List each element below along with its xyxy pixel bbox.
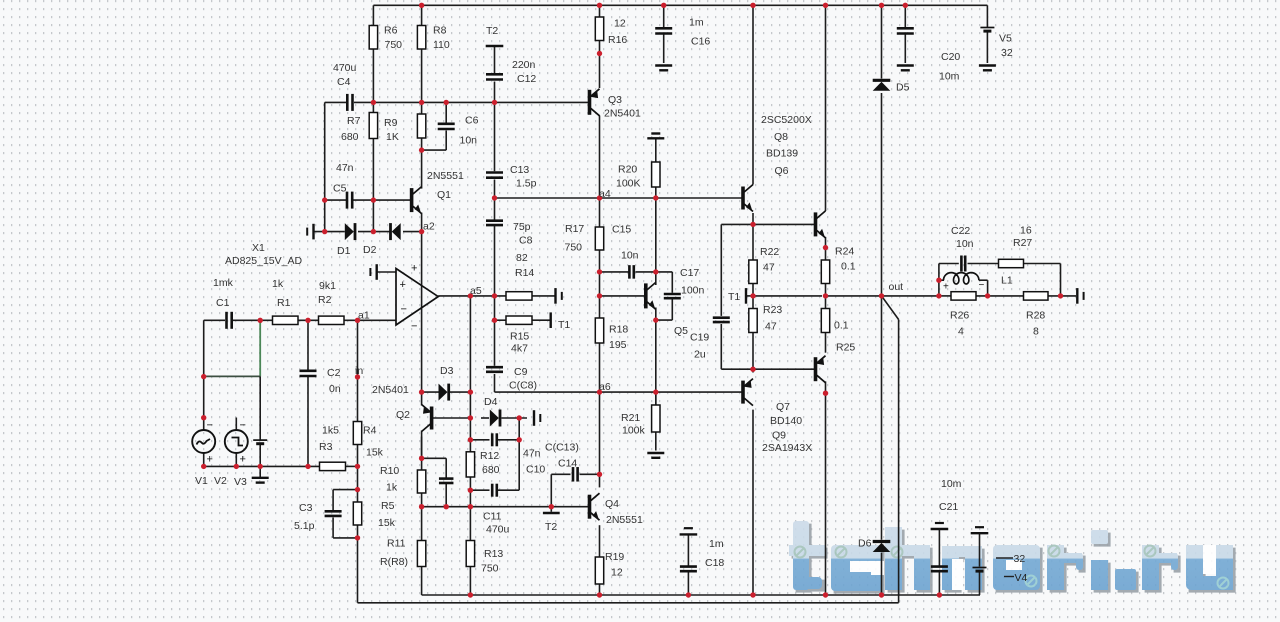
junction at (470.4,595) (468, 592, 473, 597)
svg-text:1k5: 1k5 (322, 425, 339, 437)
svg-text:V5: V5 (999, 33, 1012, 45)
wire R5 down to feedback rail (357, 525, 359, 603)
capacitor C22 (961, 256, 965, 272)
svg-text:Q3: Q3 (608, 94, 622, 106)
junction at (825.5,5.3) (823, 3, 828, 8)
wire R24 to out row to R25 (825, 284, 827, 309)
capacitor C17 (664, 294, 681, 298)
wire C8 down to a5 and R15 row (494, 226, 496, 320)
svg-text:C20: C20 (941, 51, 960, 63)
wire R17 to dot272 dot296 to R18 (599, 250, 601, 318)
svg-text:D5: D5 (896, 82, 910, 94)
wire C14 left lead (551, 473, 570, 475)
svg-text:32: 32 (1001, 47, 1013, 59)
wire C21 terminal to cap (938, 529, 940, 566)
wire T2 node to Q4 base (551, 506, 589, 508)
wire R16 to Q3 emitter (599, 41, 601, 89)
wire left column x=324.7 (324, 102, 326, 231)
junction at (494.5,295.9) (492, 293, 497, 298)
wire V3 to row and ground (259, 444, 261, 477)
svg-text:C4: C4 (337, 76, 351, 88)
capacitor C18 (680, 567, 697, 572)
junction at (519.2,439.8) (517, 437, 522, 442)
capacitor C10 47n (492, 433, 497, 446)
svg-text:R17: R17 (565, 223, 584, 235)
resistor R8 (417, 26, 425, 50)
wire Q9 collector to ground rail (825, 381, 827, 595)
wire R19 to ground rail (599, 584, 601, 595)
wire Q8 emitter to R24 (825, 237, 827, 260)
wire L1 right lead (979, 279, 988, 281)
junction at (421.6,231.6) (419, 229, 424, 234)
wire Q7 collector to ground rail (752, 410, 754, 595)
svg-text:47n: 47n (523, 448, 541, 460)
junction at (655.8,392.1) (653, 389, 658, 394)
wire to bypass cap (422, 457, 447, 459)
svg-text:C2: C2 (327, 367, 341, 379)
capacitor C2 (300, 371, 317, 376)
wire right vertical of C10 cluster (518, 418, 520, 490)
svg-text:9k1: 9k1 (319, 280, 336, 292)
wire T1 terminal to node (747, 295, 753, 297)
junction at (357.5,466.4) (355, 464, 360, 469)
svg-text:100n: 100n (681, 285, 705, 297)
diode D6 (873, 540, 891, 543)
ground below R21 (647, 453, 664, 458)
svg-text:12: 12 (614, 18, 626, 30)
wire Q5 emitter (655, 308, 657, 321)
resistor R15 (506, 316, 532, 324)
wire cap top lead (445, 458, 447, 478)
wire cap row441 right (497, 439, 519, 441)
svg-text:47: 47 (763, 262, 775, 274)
svg-text:C15: C15 (612, 224, 631, 236)
wire T2 terminal to C12 (494, 47, 496, 74)
wire D6 to ground rail (881, 553, 883, 596)
resistor R24 (821, 260, 829, 284)
wire R20 to a4 (655, 187, 657, 198)
svg-text:75p: 75p (513, 221, 531, 233)
wire R4 to dots to R5 (357, 445, 359, 503)
wire Q2 base to D4 row (432, 417, 471, 419)
svg-text:10n: 10n (621, 250, 639, 262)
svg-text:C3: C3 (299, 502, 313, 514)
svg-text:R13: R13 (484, 548, 503, 560)
wire C2 to source row (307, 377, 309, 467)
wire C21 to ground rail (938, 571, 940, 595)
svg-text:2u: 2u (694, 349, 706, 361)
wire R17node to C15 (600, 271, 629, 273)
wire C3 loop top (333, 489, 357, 491)
wire corner down to out row (1060, 264, 1062, 296)
svg-text:R12: R12 (480, 450, 499, 462)
svg-text:10m: 10m (941, 478, 962, 490)
wire C4 to Q3 base row (354, 101, 589, 103)
junction at (308,466.4) (305, 464, 310, 469)
svg-text:2N5551: 2N5551 (427, 170, 464, 182)
wire C5 row left (325, 199, 347, 201)
svg-text:C14: C14 (558, 458, 577, 470)
junction at (753,224.4) (750, 222, 755, 227)
wire R10 to base row to R11 (421, 493, 423, 541)
resistor R25 (821, 309, 829, 333)
wire rail to R8 (421, 5, 423, 25)
svg-text:2N5401: 2N5401 (372, 384, 409, 396)
svg-text:−: − (240, 420, 246, 432)
wire a6 to R21 (655, 392, 657, 405)
diode D5 (873, 79, 891, 82)
svg-text:T2: T2 (545, 521, 557, 533)
wire C9 to a6 row (494, 374, 496, 392)
svg-text:5.1p: 5.1p (294, 520, 315, 532)
wire a2 node to D3 (422, 391, 439, 393)
junction at (260.2,320.3) (258, 318, 263, 323)
svg-text:2N5401: 2N5401 (604, 108, 641, 120)
wire C13 to C8 (494, 180, 496, 220)
wire R12 to R13 (469, 477, 471, 541)
svg-text:R8: R8 (433, 25, 447, 37)
svg-text:12: 12 (611, 567, 623, 579)
junction at (421.6,392.1) (419, 389, 424, 394)
junction at (599.5,295.9) (597, 293, 602, 298)
wire R6 to C4 row to R7 (372, 49, 374, 113)
junction at (203.7,376.6) (201, 374, 206, 379)
svg-text:BD139: BD139 (766, 148, 798, 160)
svg-text:C21: C21 (939, 501, 958, 513)
svg-text:R15: R15 (510, 331, 529, 343)
svg-text:BD140: BD140 (770, 415, 802, 427)
capacitor C13 (486, 173, 503, 178)
junction at (373.4,231.6) (371, 229, 376, 234)
wire C17 loop top (656, 271, 673, 273)
diode D1 (345, 223, 354, 240)
resistor R21 (652, 405, 660, 432)
junction at (357.5,320.3) (355, 318, 360, 323)
wire R18 to a6 row (599, 343, 601, 392)
wire green selected segment horizontal (204, 375, 261, 377)
junction at (655.8,320.1) (653, 317, 658, 322)
ground below C20 (897, 66, 914, 71)
svg-text:82: 82 (516, 252, 528, 264)
svg-text:−: − (207, 420, 213, 432)
wire R15 to terminal T1 (532, 319, 550, 321)
svg-text:R20: R20 (618, 164, 637, 176)
svg-text:195: 195 (609, 339, 627, 351)
capacitor C14 (573, 467, 578, 482)
capacitor C3 (325, 511, 342, 516)
svg-text:Q1: Q1 (437, 189, 451, 201)
svg-text:R22: R22 (760, 246, 779, 258)
svg-text:47n: 47n (336, 162, 354, 174)
capacitor across R10 (439, 479, 454, 483)
wire a6 to Q4 collector node (599, 392, 601, 474)
svg-text:1mk: 1mk (213, 277, 234, 289)
svg-text:1m: 1m (709, 538, 724, 550)
svg-text:680: 680 (482, 464, 500, 476)
junction at (825.5,295.9) (823, 293, 828, 298)
junction at (446.2,506.7) (444, 504, 449, 509)
junction at (825.5,247.6) (823, 245, 828, 250)
svg-text:1m: 1m (689, 17, 704, 29)
source V2 pulse (225, 420, 248, 466)
svg-text:C5: C5 (333, 183, 347, 195)
wire green selected segment vertical (259, 320, 261, 376)
wire R9 to dot150 to Q1 collector (421, 138, 423, 189)
op-amp X1 AD825 (396, 263, 438, 333)
junction at (470.4,392.1) (468, 389, 473, 394)
wire V2 to bottom row (235, 453, 237, 466)
junction at (236.3,466.4) (234, 464, 239, 469)
wire D5 to out node (881, 93, 883, 296)
wire C18 to ground rail (687, 571, 689, 595)
wire D3node to D4 (481, 417, 489, 419)
wire Q5 base row (600, 295, 646, 297)
wire Q4 emitter to R19 (599, 525, 601, 557)
junction at (373.4,102.4) (371, 100, 376, 105)
wire R2 to op-amp inverting input (344, 319, 396, 321)
svg-text:R27: R27 (1013, 237, 1032, 249)
svg-text:R28: R28 (1026, 310, 1045, 322)
wire T1 loop left upper (720, 224, 722, 316)
resistor R26 (951, 292, 976, 300)
junction at (599.5,595) (597, 592, 602, 597)
svg-text:R(R8): R(R8) (380, 556, 408, 568)
svg-text:680: 680 (341, 131, 359, 143)
wire rail to R16 (599, 5, 601, 17)
wire out row left (826, 295, 939, 297)
svg-text:C12: C12 (517, 73, 536, 85)
svg-text:+: + (207, 454, 213, 466)
wire Q2 collector node to R10 (421, 437, 423, 470)
wire R22 to R23 (752, 284, 754, 309)
junction at (655.8,271.9) (653, 269, 658, 274)
junction at (939.4,595) (937, 592, 942, 597)
wire R27 to corner (1024, 263, 1061, 265)
svg-text:470u: 470u (486, 524, 510, 536)
wire row102 left of C4 (325, 101, 347, 103)
svg-text:V4: V4 (1015, 572, 1028, 584)
resistor R11 (417, 541, 425, 567)
wire feedback rail (358, 602, 899, 604)
junction at (324.7,231.6) (322, 229, 327, 234)
svg-text:47: 47 (765, 321, 777, 333)
watermark tehnari.ru (789, 521, 1236, 594)
svg-text:out: out (889, 281, 904, 293)
svg-text:R24: R24 (835, 246, 854, 258)
junction at (881.5,5.3) (879, 3, 884, 8)
wire C3 bottom lead (332, 518, 334, 538)
capacitor C20 (897, 28, 914, 33)
junction at (551.3,506.7) (549, 504, 554, 509)
svg-text:C9: C9 (514, 366, 528, 378)
svg-text:1K: 1K (386, 131, 399, 143)
wire ground rail (422, 594, 980, 596)
resistor R13 (466, 541, 474, 567)
resistor R9 (417, 114, 425, 138)
wire top loop to C22 (939, 263, 959, 265)
junction at (655.8,198) (653, 195, 658, 200)
svg-text:1k: 1k (386, 482, 398, 494)
wire Q1 emitter to a2 row (421, 213, 423, 232)
wire R15 node to C9 (494, 320, 496, 366)
wire a1 node-in down to R4 (357, 320, 359, 421)
svg-text:4k7: 4k7 (511, 343, 528, 355)
resistor R7 (369, 113, 377, 139)
svg-text:V1: V1 (195, 475, 208, 487)
wire rail to C20 (904, 5, 906, 27)
wire out node diagonal to feedback (882, 296, 899, 320)
svg-text:15k: 15k (378, 517, 396, 529)
wire V4 terminal to battery (979, 533, 981, 566)
wire rail to R6 (372, 5, 374, 25)
svg-text:+: + (240, 454, 246, 466)
svg-text:C10: C10 (526, 464, 545, 476)
ground below V5 (979, 66, 996, 71)
resistor R18 (595, 318, 603, 343)
wire V5 to ground (986, 31, 988, 63)
junction at (324.7,200.1) (322, 197, 327, 202)
wire C3 top lead (332, 490, 334, 510)
svg-text:220n: 220n (512, 59, 536, 71)
transistor Q9 2SA1943X (816, 356, 826, 383)
wire a4 row (495, 197, 743, 199)
junction at (599.5,392.1) (597, 389, 602, 394)
junction at (599.5,474.3) (597, 472, 602, 477)
svg-text:750: 750 (481, 563, 499, 575)
wire stub to T2 terminal (550, 507, 552, 512)
resistor R20 (652, 162, 660, 187)
wire R21 to ground (655, 432, 657, 451)
junction at (373.4,200.1) (371, 197, 376, 202)
svg-text:C16: C16 (691, 36, 710, 48)
svg-text:110: 110 (433, 39, 450, 51)
wire Q2 collector down (421, 431, 423, 459)
junction at (599.5,53.5) (597, 51, 602, 56)
svg-text:750: 750 (385, 39, 403, 51)
resistor R4 (353, 422, 361, 445)
svg-text:in: in (355, 365, 363, 377)
svg-text:−: − (411, 321, 417, 333)
junction at (308,320.3) (305, 318, 310, 323)
transistor Q6 BD139 (743, 185, 753, 212)
svg-text:T2: T2 (486, 25, 498, 37)
junction at (421.6,5.3) (419, 3, 424, 8)
svg-text:C19: C19 (690, 332, 709, 344)
junction at (938.9,280.2) (936, 278, 941, 283)
terminal above V4 (971, 527, 989, 533)
junction at (753,369.2) (750, 367, 755, 372)
svg-text:100k: 100k (622, 425, 646, 437)
svg-text:R18: R18 (609, 324, 628, 336)
wire Q6 emitter row to Q8 base (721, 223, 815, 225)
svg-text:R7: R7 (347, 115, 361, 127)
svg-text:D2: D2 (363, 244, 377, 256)
resistor R23 (749, 309, 757, 333)
resistor R2 (319, 316, 345, 324)
wire cap row441 left (470, 439, 489, 441)
svg-text:C22: C22 (951, 225, 970, 237)
wire rail to Q6 collector (752, 5, 754, 184)
wire Q6 emitter down (752, 213, 754, 224)
svg-text:Q9: Q9 (772, 430, 786, 442)
wire op-amp noninverting input (378, 271, 397, 273)
junction at (938.9,295.9) (936, 293, 941, 298)
svg-text:R26: R26 (950, 310, 969, 322)
svg-text:R25: R25 (836, 342, 855, 354)
terminal on node a2 (307, 224, 313, 240)
wire a1 to C2 (307, 320, 309, 370)
svg-text:L1: L1 (1001, 275, 1013, 287)
terminal output after R28 (1077, 288, 1083, 304)
svg-text:10m: 10m (939, 71, 960, 83)
battery V3 (253, 440, 267, 444)
wire R14 to terminal (532, 295, 555, 297)
svg-text:X1: X1 (252, 242, 265, 254)
svg-text:a1: a1 (358, 310, 370, 322)
capacitor C8 75p (486, 221, 503, 225)
terminal T1 at R22/R23 (745, 288, 747, 304)
wire D2 to node a2 (403, 231, 422, 233)
junction at (599.5,5.3) (597, 3, 602, 8)
svg-text:R1: R1 (277, 297, 291, 309)
junction at (688.4,595) (686, 592, 691, 597)
wire C22 to R27 (968, 263, 999, 265)
wire Q5 emitter node to R21 (655, 320, 657, 405)
svg-text:0n: 0n (329, 383, 341, 395)
svg-text:C11: C11 (483, 511, 502, 523)
wire mid row R22R23 to R24R25 (753, 295, 822, 297)
transistor Q7 BD140 (743, 379, 753, 406)
wire a5 row op-amp output (438, 295, 506, 297)
svg-text:C17: C17 (680, 267, 699, 279)
svg-text:15k: 15k (366, 447, 384, 459)
terminal T1 after R15 (550, 312, 552, 328)
wire R15 row left (495, 319, 507, 321)
svg-text:R6: R6 (384, 25, 398, 37)
svg-text:R5: R5 (381, 500, 395, 512)
transistor Q1 2N5551 (412, 187, 422, 214)
svg-text:Q2: Q2 (396, 409, 410, 421)
junction at (494.5,320.2) (492, 318, 497, 323)
transistor Q4 2N5551 (590, 493, 600, 520)
junction at (753,5.3) (750, 3, 755, 8)
wire rail to Q8 collector (825, 5, 827, 211)
transistor Q2 2N5401 (422, 405, 432, 432)
svg-text:+: + (400, 279, 406, 291)
terminal op-amp V+ input (370, 264, 376, 280)
svg-text:2SC5200X: 2SC5200X (761, 114, 812, 126)
wire C17 loop bottom (656, 319, 673, 321)
junction at (519.2,418) (517, 415, 522, 420)
label 32 for V4 (996, 557, 1013, 559)
terminal above C21 (931, 523, 949, 529)
wire node to L1/C22 branch (938, 264, 940, 296)
wire rail to D5 cathode (881, 5, 883, 78)
svg-text:Q8: Q8 (774, 131, 788, 143)
wire L1 to out row (987, 280, 989, 296)
junction at (470.4,295.9) (468, 293, 473, 298)
svg-text:C1: C1 (216, 297, 230, 309)
wire D3 to corner (450, 391, 470, 393)
wire D4 to terminal (502, 417, 528, 419)
wire R7 to C5 row to D1 row (372, 139, 374, 232)
svg-text:V2: V2 (214, 475, 227, 487)
svg-text:10n: 10n (956, 238, 974, 250)
resistor R3 (320, 462, 346, 470)
svg-text:C6: C6 (465, 115, 479, 127)
junction at (494.5,198) (492, 195, 497, 200)
junction at (599.5,198) (597, 195, 602, 200)
